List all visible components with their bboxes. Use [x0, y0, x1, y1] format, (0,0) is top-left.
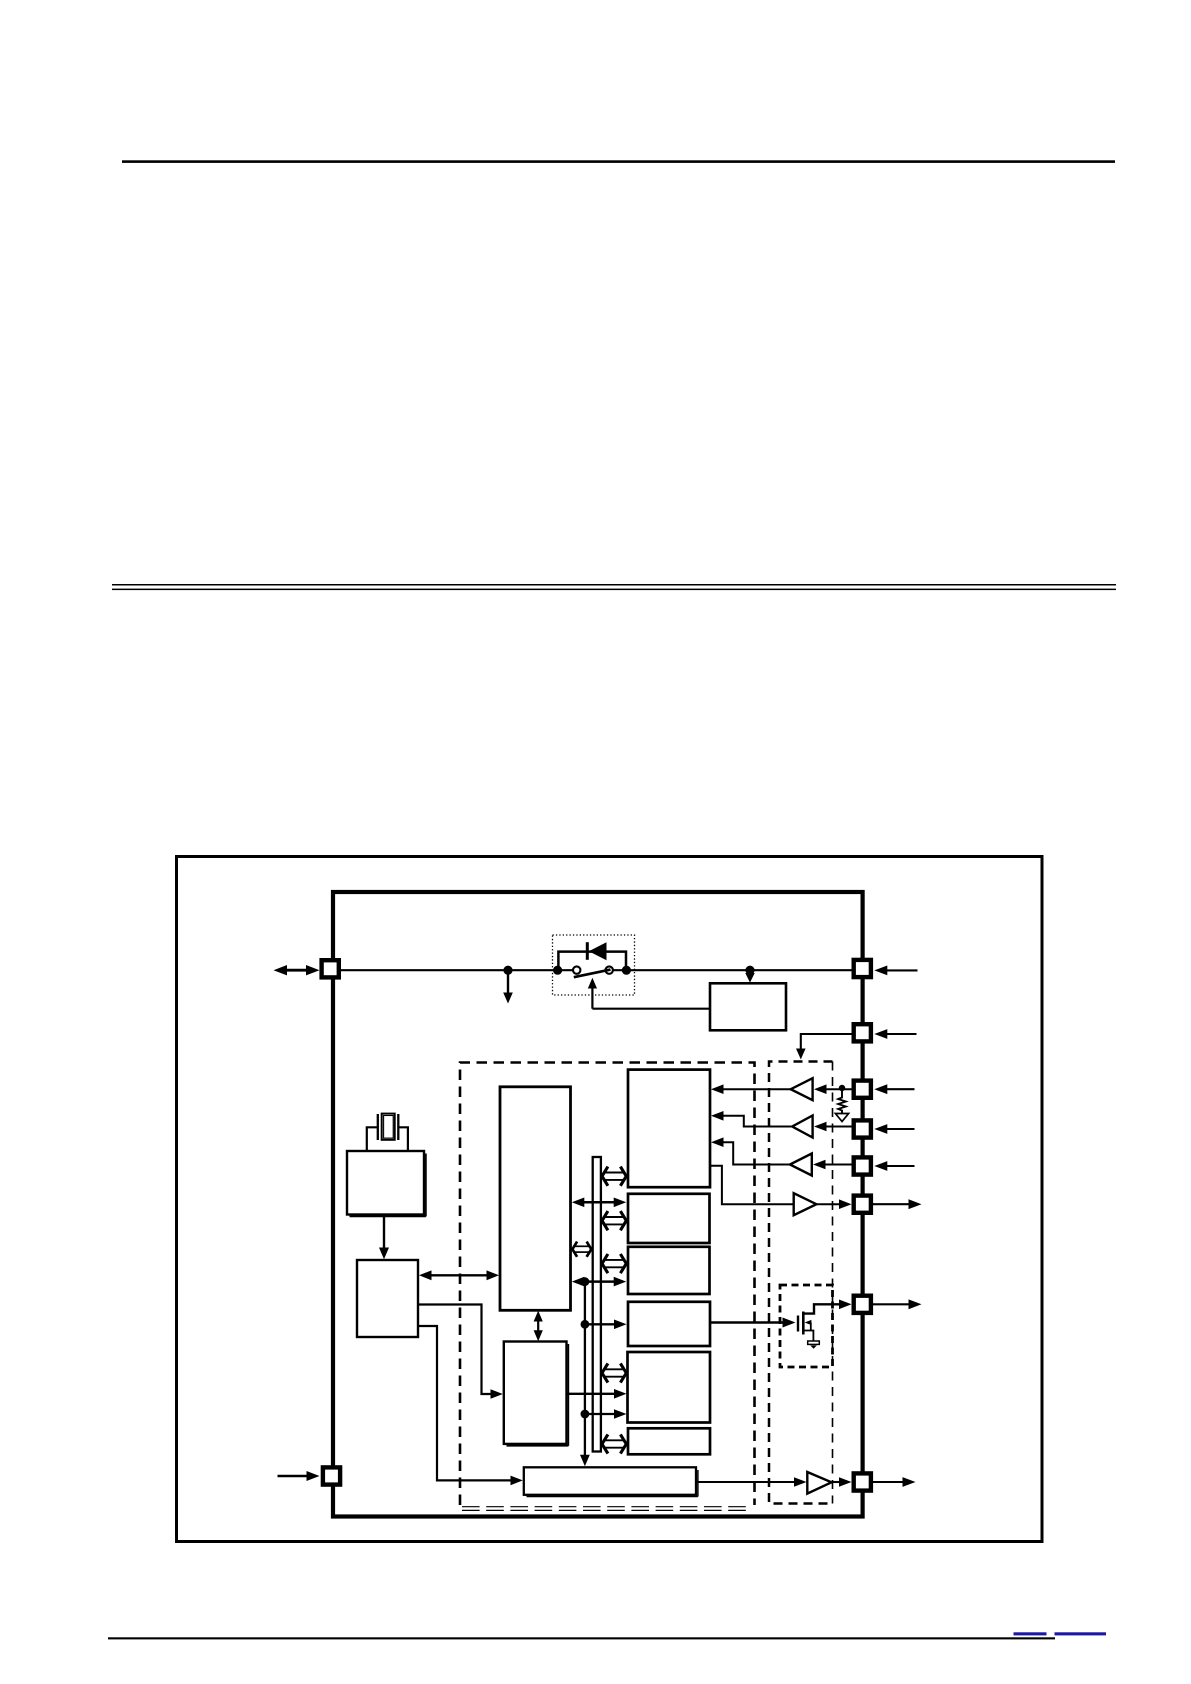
- buffer U3 line to box1: [711, 1084, 791, 1094]
- CPU to box3 double arrow: [572, 1277, 626, 1287]
- outer package box: [177, 857, 1043, 1542]
- gate drive wire to MOSFET: [710, 1318, 796, 1328]
- pad square P9: [854, 1473, 871, 1490]
- pin P4 input arrow: [874, 1084, 914, 1094]
- section double rule: [112, 584, 1116, 590]
- buffer U6 to pin6: [816, 1199, 851, 1209]
- bus open arrow to box3: [602, 1254, 626, 1273]
- dashed analog column region: [769, 1062, 833, 1504]
- node on pin3 wire: [839, 1085, 845, 1091]
- crystal X1: [367, 1114, 408, 1151]
- RAM box: [504, 1342, 569, 1446]
- peripheral box 3: [628, 1247, 710, 1294]
- node left of switch: [553, 966, 562, 975]
- pin4 wire to buffer: [814, 1122, 852, 1132]
- inner chip box: [333, 892, 863, 1517]
- pin P9 output arrow: [872, 1477, 916, 1487]
- pin2 wire into analog region: [796, 1034, 852, 1059]
- pad square P2: [854, 960, 871, 977]
- pad square P8: [854, 1296, 871, 1313]
- node on clock wire low: [581, 1410, 590, 1419]
- buffer U5 jog line to box1: [711, 1137, 790, 1164]
- timer long box: [524, 1467, 698, 1496]
- pulldown resistor R1: [835, 1090, 848, 1122]
- internal data bus bar: [593, 1157, 601, 1452]
- pad square P7: [854, 1196, 871, 1213]
- bus open arrow to box5: [602, 1363, 626, 1382]
- osc to CPU double arrow: [419, 1270, 499, 1280]
- oscillator box: [357, 1260, 418, 1337]
- input buffer U4: [792, 1116, 812, 1138]
- timer box to buffer U8 wire: [696, 1477, 807, 1487]
- osc to timer wire: [418, 1326, 523, 1485]
- pin P8 output arrow: [872, 1299, 922, 1309]
- bus open arrow to box6: [602, 1434, 626, 1453]
- peripheral box 1: [628, 1070, 710, 1188]
- MOSFET Q1: [798, 1300, 852, 1342]
- output buffer U6: [794, 1193, 817, 1215]
- arrow node to box4: [585, 1320, 627, 1330]
- peripheral box 6: [628, 1428, 710, 1454]
- bus open arrow to box2: [602, 1211, 626, 1230]
- ground symbol: [808, 1341, 820, 1349]
- node above control box: [745, 966, 754, 975]
- diode D1: [586, 942, 607, 960]
- buffer U4 jog line to box1: [711, 1111, 792, 1127]
- pin P2 input arrow: [874, 966, 917, 976]
- input buffer U5: [790, 1154, 812, 1176]
- dashed MOSFET driver region: [780, 1285, 833, 1367]
- arrow RAM to box5: [567, 1389, 627, 1399]
- crystal unit box: [347, 1151, 426, 1216]
- input buffer U3: [791, 1078, 813, 1100]
- node on clock wire top: [581, 1277, 590, 1286]
- node junction: [503, 966, 512, 975]
- pad square P5: [854, 1120, 871, 1137]
- node on clock wire mid: [581, 1320, 590, 1329]
- output wire box1 to buffer U6: [710, 1166, 794, 1204]
- arrow node to box5: [585, 1409, 627, 1419]
- peripheral box 2: [628, 1194, 710, 1243]
- osc to peripheral wire: [418, 1305, 503, 1399]
- pin3 wire to buffer: [814, 1084, 852, 1094]
- bus open arrow to box1: [602, 1167, 626, 1186]
- header rule: [122, 160, 1115, 163]
- pin P7 output arrow: [872, 1199, 922, 1209]
- switch control wire: [592, 1008, 710, 1010]
- pin5 wire to buffer: [813, 1160, 852, 1170]
- dashed digital block region: [460, 1063, 755, 1511]
- peripheral box 5: [628, 1352, 711, 1423]
- pad square P6: [854, 1157, 871, 1174]
- CPU-RAM double arrow: [534, 1311, 543, 1342]
- pin P5 input arrow: [874, 1124, 914, 1134]
- footer link underline 2: [1055, 1632, 1107, 1635]
- pad square P4: [854, 1081, 871, 1098]
- clock distribution wire: [580, 1282, 590, 1467]
- CPU to box2 double arrow: [572, 1198, 626, 1208]
- CPU box: [500, 1087, 571, 1311]
- arrow crystal to oscillator: [379, 1215, 389, 1260]
- pin P6 input arrow: [874, 1161, 914, 1171]
- buffer U8 to pin8: [832, 1477, 851, 1487]
- pad square P1: [322, 960, 339, 977]
- bus open arrow CPU side: [572, 1242, 591, 1257]
- dotted switch enclosure: [553, 935, 635, 995]
- footer link underline 1: [1014, 1632, 1047, 1635]
- main supply wire: [333, 969, 574, 971]
- pad square P3: [854, 1024, 871, 1041]
- pin P20 bottom-left input arrow: [278, 1471, 320, 1481]
- pad square P20: [323, 1467, 340, 1484]
- footer rule: [108, 1637, 1055, 1639]
- output buffer U8: [807, 1472, 831, 1494]
- arrow to internal supply: [503, 970, 513, 1004]
- peripheral box 4: [628, 1302, 710, 1346]
- diode bypass wire: [558, 952, 626, 970]
- pin P3 input arrow: [874, 1029, 916, 1039]
- pin P1 top-left bidirectional: [274, 965, 320, 975]
- node right of switch: [622, 966, 631, 975]
- switch SW1: [573, 966, 613, 977]
- arrow into control box: [745, 970, 754, 983]
- power control box: [710, 983, 786, 1030]
- switch control arrow: [588, 978, 597, 1009]
